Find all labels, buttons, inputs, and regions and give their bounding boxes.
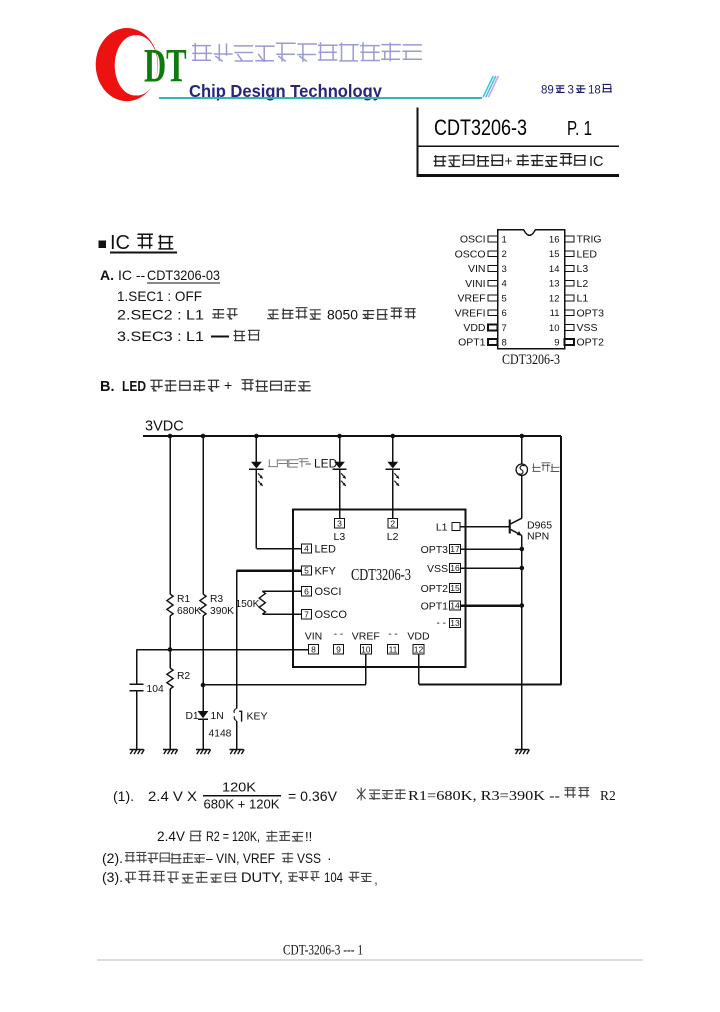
svg-text:DT: DT xyxy=(144,39,187,93)
pinout pin 10 VSS xyxy=(565,324,575,330)
wire OPT1 bold xyxy=(461,604,522,607)
svg-text:15: 15 xyxy=(549,249,560,260)
wire LED1 to pin4 xyxy=(256,548,301,550)
table mid rule xyxy=(417,145,619,147)
svg-text:CDT3206-3: CDT3206-3 xyxy=(434,115,527,140)
svg-text:= 0.36V: = 0.36V xyxy=(288,788,338,804)
wire KFY key bold xyxy=(237,569,302,572)
svg-text:+: + xyxy=(505,154,513,169)
svg-text:OPT2: OPT2 xyxy=(421,583,449,595)
svg-text:VREF: VREF xyxy=(457,293,485,305)
pin 3 L3 xyxy=(335,519,345,528)
wire VDD down xyxy=(418,654,420,684)
logo red crescent C xyxy=(96,28,158,101)
svg-text:3: 3 xyxy=(568,85,574,97)
svg-text:14: 14 xyxy=(450,601,460,611)
pinout pin 3 VIN xyxy=(488,266,498,272)
svg-text:VDD: VDD xyxy=(407,631,430,643)
wire VSS xyxy=(461,567,522,569)
svg-text:9: 9 xyxy=(554,337,559,348)
svg-text:CDT3206-3: CDT3206-3 xyxy=(351,565,411,584)
svg-text:VREF: VREF xyxy=(352,631,380,643)
wire VREF down-left xyxy=(365,654,367,684)
svg-text:8050: 8050 xyxy=(327,307,358,323)
pin 7 OSCO xyxy=(302,610,312,619)
IC U1 CDT3206-3 body xyxy=(293,510,466,668)
capacitor 104 xyxy=(136,650,138,685)
svg-text:7: 7 xyxy=(502,323,507,334)
node OPT1-emitter xyxy=(520,603,525,608)
node rail-R1 xyxy=(168,434,173,439)
svg-text:R1=680K, R3=390K --: R1=680K, R3=390K -- xyxy=(408,788,561,803)
svg-text:12: 12 xyxy=(414,645,424,655)
note 1 remark xyxy=(357,788,366,801)
svg-text:9: 9 xyxy=(336,645,341,655)
svg-text:18: 18 xyxy=(588,85,601,97)
svg-text:(1).: (1). xyxy=(113,788,134,804)
table bottom rule xyxy=(417,174,619,177)
svg-text:150K: 150K xyxy=(235,599,259,610)
node rail-LED1 xyxy=(254,434,259,439)
svg-text:OPT2: OPT2 xyxy=(577,337,605,349)
wire R1 column top xyxy=(169,436,171,594)
svg-text:390K: 390K xyxy=(210,606,234,617)
svg-text:16: 16 xyxy=(450,563,460,573)
svg-text:LED: LED xyxy=(315,544,336,556)
wire lamp to collector xyxy=(521,475,523,518)
switch KEY xyxy=(236,571,238,709)
right border wire to VDD xyxy=(560,436,562,685)
svg-text:KEY: KEY xyxy=(247,711,268,723)
svg-text:VIN: VIN xyxy=(305,631,323,643)
node R1-R2-VIN xyxy=(168,647,173,652)
svg-text:LED: LED xyxy=(577,248,598,260)
ground emitter xyxy=(515,750,530,755)
svg-text:1.SEC1 : OFF: 1.SEC1 : OFF xyxy=(117,288,202,304)
node rail-R3 xyxy=(201,434,206,439)
pinout pin 7 VDD xyxy=(488,324,498,330)
svg-text:3.SEC3 : L1: 3.SEC3 : L1 xyxy=(117,328,204,344)
footer faint rule xyxy=(97,959,643,961)
svg-text:4: 4 xyxy=(304,544,309,554)
svg-text:VSS: VSS xyxy=(297,850,321,866)
pinout pin 16 TRIG xyxy=(565,236,575,242)
svg-text:680K + 120K: 680K + 120K xyxy=(204,797,280,812)
node rail-LED2 xyxy=(337,434,342,439)
pinout pin 9 OPT2 xyxy=(565,339,575,345)
svg-text:L2: L2 xyxy=(387,531,399,543)
wire R1 to VIN node xyxy=(169,616,171,650)
svg-text:680K: 680K xyxy=(177,606,201,617)
svg-text:8: 8 xyxy=(502,337,507,348)
wire emitter down xyxy=(521,536,523,750)
wire OPT3 xyxy=(461,548,522,550)
svg-text:OSCI: OSCI xyxy=(460,234,486,246)
lamp (bulb) xyxy=(521,436,523,464)
svg-text:(2).: (2). xyxy=(102,850,123,866)
pin 6 OSCI xyxy=(302,587,312,596)
svg-text:104: 104 xyxy=(147,684,164,695)
svg-text:4: 4 xyxy=(502,279,507,290)
svg-text:IC: IC xyxy=(110,232,130,254)
node R3-D1-VREF xyxy=(201,683,206,688)
svg-text:R2: R2 xyxy=(600,788,616,803)
section bullet square xyxy=(99,241,107,249)
pinout pin 1 OSCI xyxy=(488,236,498,242)
svg-text:6: 6 xyxy=(502,308,507,319)
LED D-L3 xyxy=(339,436,341,462)
resistor R2 xyxy=(169,650,171,669)
resistor R1 680K xyxy=(167,594,173,616)
svg-text:6: 6 xyxy=(304,586,309,596)
wire R3 column top xyxy=(202,436,204,594)
svg-text:2: 2 xyxy=(390,518,395,528)
svg-text:OPT1: OPT1 xyxy=(458,337,486,349)
svg-text:CDT3206-03: CDT3206-03 xyxy=(147,267,220,283)
svg-text:CDT3206-3: CDT3206-3 xyxy=(502,352,560,368)
transistor Q1 D965 NPN xyxy=(509,520,511,534)
svg-text:120K: 120K xyxy=(222,780,256,795)
svg-text:VREFI: VREFI xyxy=(455,307,486,319)
svg-text:3VDC: 3VDC xyxy=(145,419,184,435)
pinout pin 14 L3 xyxy=(565,266,575,272)
svg-text:10: 10 xyxy=(361,645,371,655)
svg-text:7: 7 xyxy=(304,609,309,619)
svg-text:A.: A. xyxy=(100,267,114,283)
svg-text:2: 2 xyxy=(502,249,507,260)
ground KEY xyxy=(230,750,245,755)
svg-text:4148: 4148 xyxy=(209,729,232,740)
svg-text:IC: IC xyxy=(589,154,604,170)
pinout pin 2 OSCO xyxy=(488,251,498,257)
svg-text:OPT1: OPT1 xyxy=(421,601,449,613)
svg-text:DUTY,: DUTY, xyxy=(241,869,283,885)
pinout pin 12 L1 xyxy=(565,295,575,301)
svg-text:LED: LED xyxy=(314,457,338,471)
svg-text:L1: L1 xyxy=(577,293,589,305)
double slash ornament xyxy=(483,76,493,97)
ground D1 xyxy=(196,750,211,755)
svg-text:R2: R2 xyxy=(177,671,190,682)
LED D-L2 xyxy=(392,436,394,462)
svg-text:CDT-3206-3 --- 1: CDT-3206-3 --- 1 xyxy=(283,943,363,959)
svg-text:NPN: NPN xyxy=(527,531,549,543)
teal underline xyxy=(159,97,482,99)
pinout pin 6 VREFI xyxy=(488,310,498,316)
node rail-LED3 xyxy=(391,434,396,439)
pinout pin 13 L2 xyxy=(565,280,575,286)
svg-text:17: 17 xyxy=(450,544,460,554)
svg-text:L3: L3 xyxy=(577,263,589,275)
svg-text:1: 1 xyxy=(502,235,507,246)
svg-text:3: 3 xyxy=(337,518,342,528)
svg-text:104: 104 xyxy=(324,869,343,885)
svg-text:L2: L2 xyxy=(577,278,589,290)
svg-text:VIN: VIN xyxy=(468,263,486,275)
svg-text:2.4V: 2.4V xyxy=(157,829,185,844)
svg-text:R2 = 120K,: R2 = 120K, xyxy=(206,829,260,844)
resistor 150K xyxy=(262,590,301,592)
svg-text:!!: !! xyxy=(305,829,312,844)
diode D1 1N4148 xyxy=(202,685,204,711)
svg-text:11: 11 xyxy=(389,645,398,655)
svg-text:KFY: KFY xyxy=(315,566,337,578)
pin 2 L2 xyxy=(388,519,398,528)
svg-text:TRIG: TRIG xyxy=(577,234,602,246)
svg-text:OPT3: OPT3 xyxy=(577,307,605,319)
svg-text:VINI: VINI xyxy=(465,278,485,290)
svg-text:8: 8 xyxy=(311,645,316,655)
svg-text:L1: L1 xyxy=(436,522,448,534)
svg-text:OSCO: OSCO xyxy=(455,248,486,260)
pinout pin 11 OPT3 xyxy=(565,310,575,316)
ground capacitor xyxy=(130,750,145,755)
svg-text:,: , xyxy=(374,871,378,887)
wire L1 to base xyxy=(460,526,509,528)
svg-text:5: 5 xyxy=(502,293,507,304)
svg-text:12: 12 xyxy=(549,293,560,304)
svg-text:11: 11 xyxy=(550,308,560,319)
pin 4 LED xyxy=(302,544,312,553)
svg-text:13: 13 xyxy=(450,618,460,628)
svg-text:OSCO: OSCO xyxy=(315,609,348,621)
pin 5 KFY xyxy=(302,566,312,575)
svg-text:– VIN, VREF: – VIN, VREF xyxy=(206,850,275,866)
pinout pin 15 LED xyxy=(565,251,575,257)
svg-text:13: 13 xyxy=(549,279,560,290)
svg-text:B.: B. xyxy=(100,379,115,395)
svg-text:R1: R1 xyxy=(177,594,190,605)
svg-text:(3).: (3). xyxy=(102,869,123,885)
pinout pin 8 OPT1 xyxy=(488,339,498,345)
svg-text:10: 10 xyxy=(549,323,560,334)
svg-text:·: · xyxy=(327,850,332,866)
pinout pin 5 VREF xyxy=(488,295,498,301)
svg-text:15: 15 xyxy=(450,583,460,593)
LED D-L1 flashing indicator xyxy=(255,436,257,462)
svg-text:VSS: VSS xyxy=(427,563,448,575)
svg-text:- -: - - xyxy=(437,618,446,629)
company name (garbled CJK) xyxy=(192,42,422,62)
svg-text:14: 14 xyxy=(549,264,560,275)
svg-text:- -: - - xyxy=(334,629,343,640)
svg-text:2.SEC2 : L1: 2.SEC2 : L1 xyxy=(117,307,204,323)
svg-text:VDD: VDD xyxy=(463,322,486,334)
node VSS-emitter xyxy=(520,566,525,571)
node OPT3-emitter xyxy=(520,547,525,552)
svg-text:2.4 V X: 2.4 V X xyxy=(148,788,198,804)
svg-text:+: + xyxy=(224,377,232,393)
svg-text:16: 16 xyxy=(549,235,560,246)
pinout pin 4 VINI xyxy=(488,280,498,286)
svg-text:- -: - - xyxy=(388,629,397,640)
svg-text:OSCI: OSCI xyxy=(315,586,342,598)
svg-text:OPT3: OPT3 xyxy=(421,544,449,556)
3VDC power rail xyxy=(143,435,561,437)
svg-text:R3: R3 xyxy=(210,594,223,605)
svg-text:L3: L3 xyxy=(334,531,346,543)
svg-text:89: 89 xyxy=(541,85,554,97)
resistor R3 390K xyxy=(200,594,206,616)
svg-text:VSS: VSS xyxy=(577,322,598,334)
LED label (garbled) xyxy=(268,459,309,468)
lamp label (garbled) xyxy=(532,463,559,472)
table subtitle (garbled CJK) + IC xyxy=(434,155,504,167)
wire VIN line xyxy=(137,649,309,651)
title table left border xyxy=(416,108,418,178)
svg-text:IC --: IC -- xyxy=(118,267,146,283)
IC package body with notch xyxy=(498,230,565,349)
svg-text:3: 3 xyxy=(502,264,507,275)
ground R2 xyxy=(163,750,178,755)
svg-text:P. 1: P. 1 xyxy=(567,118,592,140)
svg-text:D1: D1 xyxy=(186,711,199,722)
wire R3 to D1 node xyxy=(202,616,204,685)
node rail-lamp xyxy=(520,434,525,439)
svg-text:5: 5 xyxy=(304,566,309,576)
svg-text:1N: 1N xyxy=(211,711,224,722)
svg-text:LED: LED xyxy=(122,379,146,395)
